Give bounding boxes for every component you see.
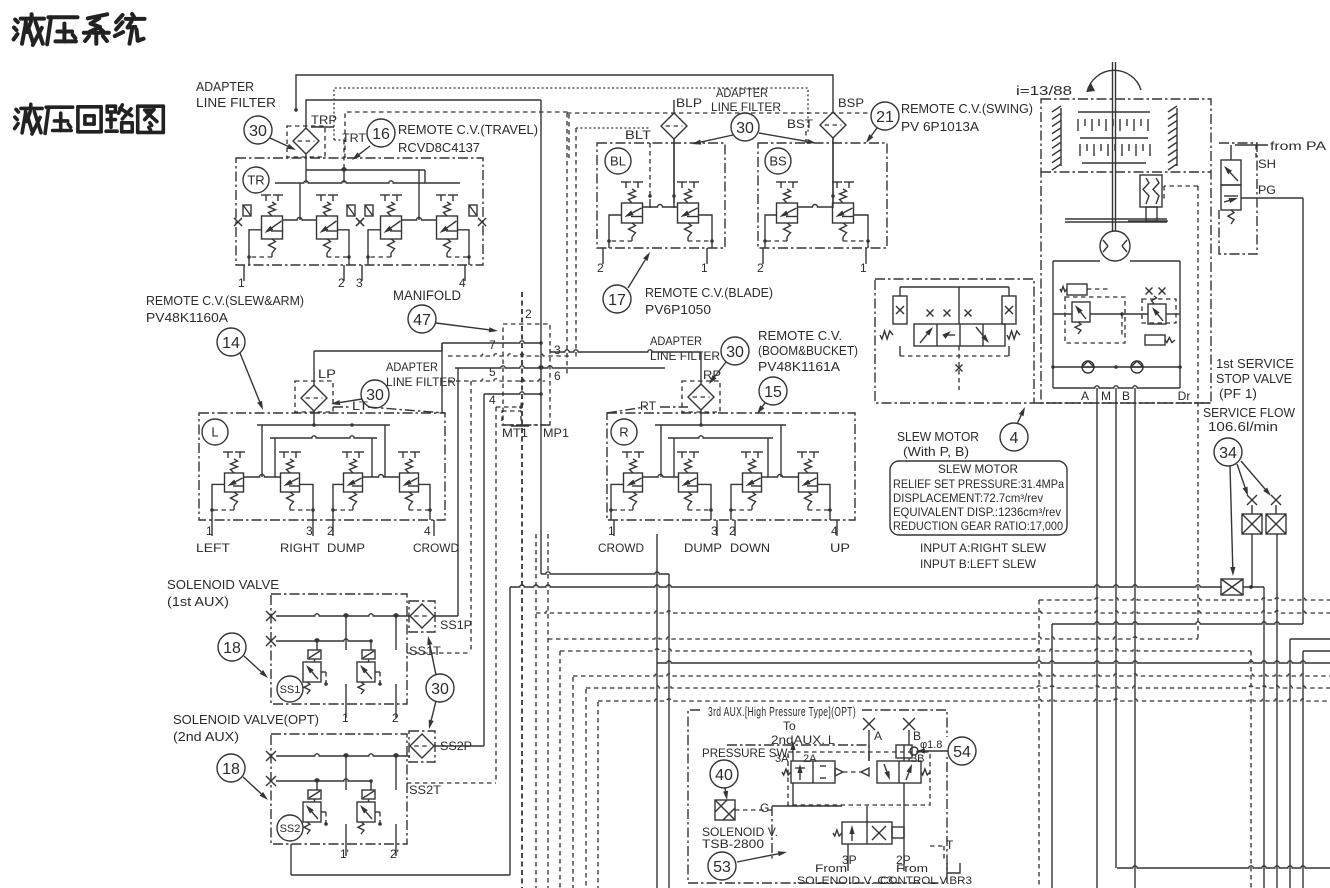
bus T1 dashed: [1039, 598, 1330, 600]
svg-text:2: 2: [327, 524, 334, 538]
svg-text:1: 1: [608, 524, 615, 538]
valve SH/PG 2position: [1221, 160, 1241, 224]
svg-text:RT: RT: [640, 399, 657, 413]
svg-text:30: 30: [431, 681, 449, 698]
label L: [202, 419, 228, 445]
svg-text:MANIFOLD: MANIFOLD: [393, 288, 461, 303]
bus bottom right: [1117, 866, 1330, 868]
TR valve sections 1-2: [247, 195, 351, 265]
wire TRT dashed: [334, 140, 346, 172]
L valve sections 3-4: [331, 452, 432, 520]
wire top supply: [294, 75, 833, 112]
swing block outline: [1041, 99, 1211, 403]
svg-text:A: A: [874, 729, 882, 743]
svg-text:SOLENOID VALVE(OPT): SOLENOID VALVE(OPT): [173, 712, 319, 727]
label remote cv swing: [901, 102, 1033, 134]
svg-text:BST: BST: [787, 117, 814, 131]
svg-text:BL: BL: [610, 154, 626, 169]
bus PG horizontal: [1052, 622, 1303, 624]
svg-text:MT1: MT1: [502, 426, 528, 440]
manifold port lines: [442, 307, 665, 407]
BS internal wires: [831, 138, 835, 208]
svg-text:47: 47: [413, 312, 431, 329]
bus B10 dashed: [586, 686, 1330, 688]
svg-text:LT: LT: [352, 399, 369, 413]
label remote cv boom bucket: [758, 329, 858, 374]
svg-text:1: 1: [701, 261, 708, 275]
label BSP: [838, 96, 864, 110]
bus MP1 horizontal: [541, 572, 669, 574]
svg-text:1': 1': [340, 847, 349, 861]
R port stubs: [598, 520, 850, 555]
callout 53: [708, 851, 787, 880]
title hydraulic circuit diagram: [15, 104, 164, 134]
service valve B: [1266, 495, 1286, 888]
svg-text:A: A: [1081, 389, 1089, 403]
svg-text:2: 2: [338, 276, 345, 290]
label SS2P: [440, 739, 472, 753]
wire PG corner down: [1051, 624, 1053, 888]
motor port labels: [1081, 389, 1190, 403]
manifold MP1 line: [540, 100, 542, 574]
label BS: [765, 148, 791, 174]
label adapter line filter (blade/swing): [711, 86, 781, 114]
svg-text:RP: RP: [703, 368, 721, 382]
svg-text:3B: 3B: [911, 753, 924, 765]
svg-text:L: L: [211, 425, 218, 440]
label BLP: [676, 96, 702, 110]
callout 18 ss2: [217, 754, 268, 800]
svg-text:3: 3: [356, 276, 363, 290]
svg-text:3A: 3A: [775, 753, 789, 765]
svg-text:4: 4: [424, 524, 431, 538]
label SS1T: [409, 644, 442, 658]
svg-text:SERVICE FLOW: SERVICE FLOW: [1203, 406, 1295, 420]
svg-text:18: 18: [223, 640, 241, 657]
svg-text:From: From: [815, 863, 847, 875]
bus B6 dashed: [548, 637, 1330, 639]
label service flow: [1203, 406, 1295, 434]
label TR: [243, 167, 269, 193]
aux B port: [903, 718, 921, 745]
svg-text:15: 15: [764, 384, 782, 401]
SS1 filter box: [409, 601, 435, 632]
callout 30 R filter: [709, 337, 749, 384]
aux lower valve: [727, 745, 904, 871]
wire BLT dashed: [649, 143, 651, 203]
wire from PA: [1231, 139, 1326, 160]
block R outline: [607, 413, 855, 520]
svg-text:DUMP: DUMP: [327, 541, 365, 555]
L internal supply wires: [257, 411, 390, 477]
svg-text:BS: BS: [769, 154, 787, 169]
label T tank: [930, 838, 960, 873]
svg-text:REDUCTION GEAR RATIO:17,000: REDUCTION GEAR RATIO:17,000: [893, 521, 1063, 533]
svg-text:SS2: SS2: [280, 823, 301, 835]
block L outline: [199, 413, 445, 520]
svg-text:SH: SH: [1258, 157, 1276, 171]
label solenoid valve 2nd aux: [173, 712, 319, 744]
wire L port4 line: [483, 394, 485, 746]
label remote cv blade: [645, 286, 773, 317]
svg-text:2: 2: [392, 711, 399, 725]
label adapter line filter (L): [386, 360, 456, 389]
svg-text:PG: PG: [1258, 183, 1276, 197]
callout 16 travel CV: [352, 119, 395, 160]
filter BSP diamond: [820, 112, 846, 203]
svg-text:30: 30: [736, 120, 754, 137]
vertical bus x657: [656, 534, 658, 888]
svg-text:3: 3: [306, 524, 313, 538]
svg-text:1: 1: [860, 261, 867, 275]
vertical bus x573 dashed: [572, 677, 574, 888]
block BS outline: [758, 143, 887, 248]
svg-text:SLEW MOTOR: SLEW MOTOR: [938, 464, 1018, 476]
svg-text:3: 3: [711, 524, 718, 538]
svg-text:G: G: [760, 801, 769, 815]
svg-text:REMOTE C.V.(TRAVEL): REMOTE C.V.(TRAVEL): [398, 123, 538, 137]
callout 47 manifold: [408, 305, 498, 333]
callout 30 travel filter: [244, 116, 296, 150]
callout 17 blade CV: [603, 252, 650, 313]
callout 14 slew arm CV: [217, 328, 263, 410]
label PG: [1258, 183, 1276, 197]
svg-text:REMOTE C.V.(SLEW&ARM): REMOTE C.V.(SLEW&ARM): [146, 294, 304, 308]
svg-text:40: 40: [715, 767, 733, 784]
svg-text:(PF 1): (PF 1): [1219, 387, 1257, 401]
wire B7 corners down: [1251, 651, 1303, 888]
label to 2nd aux: [771, 719, 835, 747]
svg-text:T: T: [946, 838, 954, 852]
svg-text:from PA: from PA: [1270, 139, 1326, 153]
svg-text:BSP: BSP: [838, 96, 864, 110]
svg-text:BLP: BLP: [676, 96, 702, 110]
svg-text:6: 6: [554, 369, 561, 383]
aux solenoid valves: [782, 741, 930, 805]
svg-text:16: 16: [372, 126, 390, 143]
L port stubs: [196, 520, 459, 555]
svg-text:ADAPTER: ADAPTER: [650, 334, 702, 348]
svg-text:SS2T: SS2T: [409, 783, 442, 797]
svg-text:2: 2: [597, 261, 604, 275]
bus B7 dashed: [560, 649, 1330, 651]
svg-text:SS1: SS1: [280, 684, 301, 696]
svg-text:2A: 2A: [803, 753, 817, 765]
swing motor body valves: [1051, 261, 1182, 388]
TR edge check valves: [234, 205, 486, 226]
label adapter line filter (R): [650, 334, 720, 363]
label solenoid v tsb: [702, 825, 778, 851]
manifold lower dashes: [448, 354, 572, 426]
svg-text:ADAPTER: ADAPTER: [196, 79, 254, 94]
wire MP1 corner down: [668, 574, 670, 888]
manifold MT1 line: [521, 292, 523, 888]
reduction gear trains: [1078, 112, 1150, 163]
SS1 internals: [266, 611, 410, 718]
brake piston: [1128, 175, 1168, 221]
svg-text:DISPLACEMENT:72.7cm³/rev: DISPLACEMENT:72.7cm³/rev: [893, 493, 1043, 505]
wire SS2P out: [434, 745, 484, 747]
label TRP: [311, 113, 337, 127]
svg-text:BLT: BLT: [625, 128, 652, 142]
vertical bus x548 dashed: [547, 534, 549, 888]
callout 30 L filter: [331, 380, 389, 408]
TR port stubs: [238, 265, 466, 290]
service valve C: [1221, 579, 1243, 595]
wire TRP to MP1: [306, 100, 541, 128]
svg-text:53: 53: [713, 859, 731, 876]
svg-text:PV48K1161A: PV48K1161A: [758, 360, 841, 374]
BL port stubs: [597, 248, 708, 275]
wire B6 corner down: [1289, 639, 1291, 888]
svg-text:Dr: Dr: [1178, 389, 1191, 403]
label TRT: [342, 131, 367, 145]
gear hatch right: [1168, 106, 1177, 170]
svg-text:30: 30: [726, 344, 744, 361]
svg-text:TRP: TRP: [311, 113, 337, 127]
svg-text:4: 4: [1010, 430, 1019, 447]
svg-text:DOWN: DOWN: [730, 541, 770, 555]
wire SS2T out: [407, 405, 523, 783]
label RP: [703, 368, 721, 382]
svg-text:To: To: [783, 719, 796, 733]
svg-text:PV6P1050: PV6P1050: [645, 303, 711, 317]
wire LP supply: [314, 343, 442, 385]
wire RP supply: [550, 350, 701, 385]
label 3rd aux: [708, 705, 856, 719]
TR valve sections 3-4: [366, 195, 471, 265]
label gear ratio: [1016, 83, 1072, 98]
svg-text:SOLENOID V. C3: SOLENOID V. C3: [797, 875, 893, 887]
svg-text:106.6l/min: 106.6l/min: [1208, 420, 1278, 434]
label remote cv travel: [398, 123, 538, 155]
callout 4 swing motor: [1000, 407, 1028, 451]
gear shaft: [1113, 62, 1116, 231]
svg-text:4: 4: [489, 393, 496, 407]
motor port lines: [1097, 388, 1135, 888]
motor platform: [1065, 219, 1167, 222]
svg-text:18: 18: [222, 761, 240, 778]
vertical bus x560 dashed: [559, 651, 561, 888]
svg-text:TRT: TRT: [342, 131, 367, 145]
block 4 directional valve: [880, 287, 1020, 390]
bus B9 dashed: [573, 674, 1330, 676]
bus B8 solid: [657, 661, 1330, 663]
label remote cv slew arm: [146, 294, 304, 325]
vertical bus x586 dashed: [585, 689, 587, 888]
label SS2: [277, 815, 303, 841]
label SS1: [277, 676, 303, 702]
label R: [611, 419, 637, 445]
bus P1 horizontal: [510, 585, 1264, 589]
aux orifice D: [896, 739, 942, 761]
svg-text:UP: UP: [830, 541, 850, 555]
svg-text:1: 1: [238, 276, 245, 290]
wire T1 corner down: [1038, 600, 1040, 888]
L valve sections 1-2: [210, 452, 315, 520]
svg-text:7: 7: [489, 338, 496, 352]
svg-text:34: 34: [1219, 445, 1237, 462]
callout 30 blade/swing filters: [692, 113, 816, 145]
vertical bus x598 dashed: [597, 702, 599, 888]
label manifold: [393, 288, 461, 303]
svg-text:SLEW MOTOR: SLEW MOTOR: [897, 430, 979, 444]
svg-text:CROWD: CROWD: [413, 541, 459, 555]
label 1st service stop valve: [1216, 357, 1294, 401]
svg-text:30: 30: [366, 387, 384, 404]
svg-text:4: 4: [831, 524, 838, 538]
wire SS1P out: [434, 368, 458, 616]
label G: [760, 801, 769, 815]
wire P1 corner down: [1263, 587, 1265, 888]
svg-text:RIGHT: RIGHT: [280, 541, 321, 555]
svg-text:LINE FILTER: LINE FILTER: [650, 349, 720, 363]
labels 3P 2P: [842, 853, 911, 867]
BS valve sections: [763, 182, 870, 248]
BL valve sections: [607, 182, 714, 248]
svg-text:(1st AUX): (1st AUX): [167, 594, 229, 609]
service valve A: [1242, 495, 1262, 589]
label LT: [333, 399, 445, 413]
block BL outline: [597, 143, 725, 248]
callout 34 service valves: [1214, 438, 1271, 576]
svg-text:LP: LP: [318, 367, 336, 381]
swing pilot dashed lines: [1164, 186, 1198, 639]
block SS2 outline: [271, 734, 407, 844]
svg-text:(BOOM&BUCKET): (BOOM&BUCKET): [758, 344, 858, 358]
svg-text:LEFT: LEFT: [196, 541, 231, 555]
svg-text:3rd AUX.[High Pressure Type](O: 3rd AUX.[High Pressure Type](OPT): [708, 705, 856, 719]
svg-text:RCVD8C4137: RCVD8C4137: [398, 141, 480, 155]
label input A/B: [920, 541, 1047, 571]
svg-text:PV 6P1013A: PV 6P1013A: [901, 120, 980, 134]
svg-text:1: 1: [342, 711, 349, 725]
wire SS2 bottom: [291, 844, 510, 875]
dashed pilot lines left of BL: [567, 113, 872, 377]
wire top pilot dotted: [334, 88, 808, 140]
swing motor circle: [1100, 231, 1130, 261]
block 4 outline: [875, 279, 1211, 403]
svg-text:R: R: [619, 425, 628, 440]
filter TRP diamond: [287, 126, 325, 157]
wire PG line: [1241, 198, 1303, 624]
svg-text:21: 21: [876, 109, 894, 126]
svg-text:DUMP: DUMP: [684, 541, 722, 555]
title hydraulic system: [14, 14, 145, 45]
svg-text:2: 2: [525, 307, 532, 321]
svg-text:TSB-2800: TSB-2800: [702, 837, 764, 851]
R valve sections 1-2: [609, 452, 713, 520]
svg-text:TR: TR: [247, 173, 264, 188]
label SS2T: [409, 783, 442, 797]
svg-text:LINE FILTER: LINE FILTER: [196, 95, 276, 110]
svg-text:STOP VALVE: STOP VALVE: [1216, 372, 1292, 386]
filter BLP diamond: [661, 100, 687, 203]
R internal supply wires: [655, 409, 786, 477]
SS1 port labels: [342, 711, 399, 725]
block TR outline: [236, 158, 483, 265]
svg-text:LINE FILTER: LINE FILTER: [711, 100, 781, 114]
callout 54 orifice: [916, 737, 976, 765]
R valve sections 3-4: [729, 452, 832, 520]
bus T2 dashed: [536, 611, 1330, 613]
svg-text:17: 17: [608, 292, 626, 309]
label pressure sw: [702, 746, 790, 760]
svg-text:(2nd AUX): (2nd AUX): [173, 729, 239, 744]
slew motor spec table: [890, 461, 1067, 535]
svg-text:REMOTE C.V.(SWING): REMOTE C.V.(SWING): [901, 102, 1033, 116]
aux A port: [863, 718, 882, 761]
svg-text:From: From: [896, 863, 928, 875]
svg-text:SS1T: SS1T: [409, 644, 442, 658]
svg-text:CONTROL V.BR3: CONTROL V.BR3: [880, 875, 972, 887]
callout 40 pressure sw: [710, 760, 738, 800]
vertical bus x536 dashed: [535, 534, 537, 888]
svg-text:CROWD: CROWD: [598, 541, 644, 555]
svg-text:30: 30: [249, 123, 267, 140]
label RT: [607, 399, 688, 413]
rotation arrow arc: [1087, 70, 1141, 92]
svg-text:2': 2': [390, 847, 399, 861]
svg-text:MP1: MP1: [543, 426, 569, 440]
swing pilot dash-dot box: [1219, 143, 1257, 254]
bus B11 dashed: [598, 699, 1330, 701]
label adapter line filter (travel): [196, 79, 276, 110]
callout 30 ss filters: [426, 636, 454, 729]
label BST: [787, 117, 814, 143]
label LP: [318, 367, 336, 381]
manifold outline: [503, 324, 550, 425]
svg-text:LINE FILTER: LINE FILTER: [386, 375, 456, 389]
svg-text:INPUT B:LEFT SLEW: INPUT B:LEFT SLEW: [920, 557, 1037, 571]
svg-text:SS1P: SS1P: [440, 618, 472, 632]
callout 18 ss1: [218, 633, 268, 678]
svg-text:M: M: [1101, 389, 1111, 403]
svg-text:(With P, B): (With P, B): [903, 445, 969, 459]
vertical bus x510: [509, 587, 511, 875]
svg-text:1st SERVICE: 1st SERVICE: [1216, 357, 1294, 371]
svg-text:2: 2: [757, 261, 764, 275]
filter LP diamond: [295, 381, 333, 412]
filter RP diamond: [682, 381, 720, 412]
gear hatch left: [1052, 106, 1061, 170]
svg-text:2: 2: [729, 524, 736, 538]
BL internal wires: [648, 139, 676, 208]
svg-text:PV48K1160A: PV48K1160A: [146, 311, 229, 325]
SS2 port labels: [340, 847, 399, 861]
svg-text:3: 3: [554, 343, 561, 357]
svg-text:REMOTE C.V.: REMOTE C.V.: [758, 329, 842, 343]
pressure switch symbol: [715, 800, 772, 820]
manifold MT1 MP1 labels: [502, 426, 569, 440]
svg-text:EQUIVALENT DISP.:1236cm³/rev: EQUIVALENT DISP.:1236cm³/rev: [893, 507, 1061, 519]
svg-text:B: B: [1122, 389, 1130, 403]
labels 3A 2A 3B: [775, 753, 924, 765]
svg-text:i=13/88: i=13/88: [1016, 83, 1072, 98]
svg-text:5: 5: [489, 365, 496, 379]
svg-text:14: 14: [222, 335, 240, 352]
svg-text:INPUT A:RIGHT SLEW: INPUT A:RIGHT SLEW: [920, 541, 1047, 555]
callout 15 boom bucket CV: [757, 377, 787, 414]
callout 21 swing CV: [866, 102, 899, 143]
BS port stubs: [757, 248, 867, 275]
svg-text:ADAPTER: ADAPTER: [386, 360, 438, 374]
svg-text:54: 54: [953, 744, 971, 761]
dashed box travel label: [345, 112, 569, 158]
svg-text:ADAPTER: ADAPTER: [716, 86, 768, 100]
wire SS1T out: [407, 381, 471, 653]
label BLT: [625, 128, 652, 142]
